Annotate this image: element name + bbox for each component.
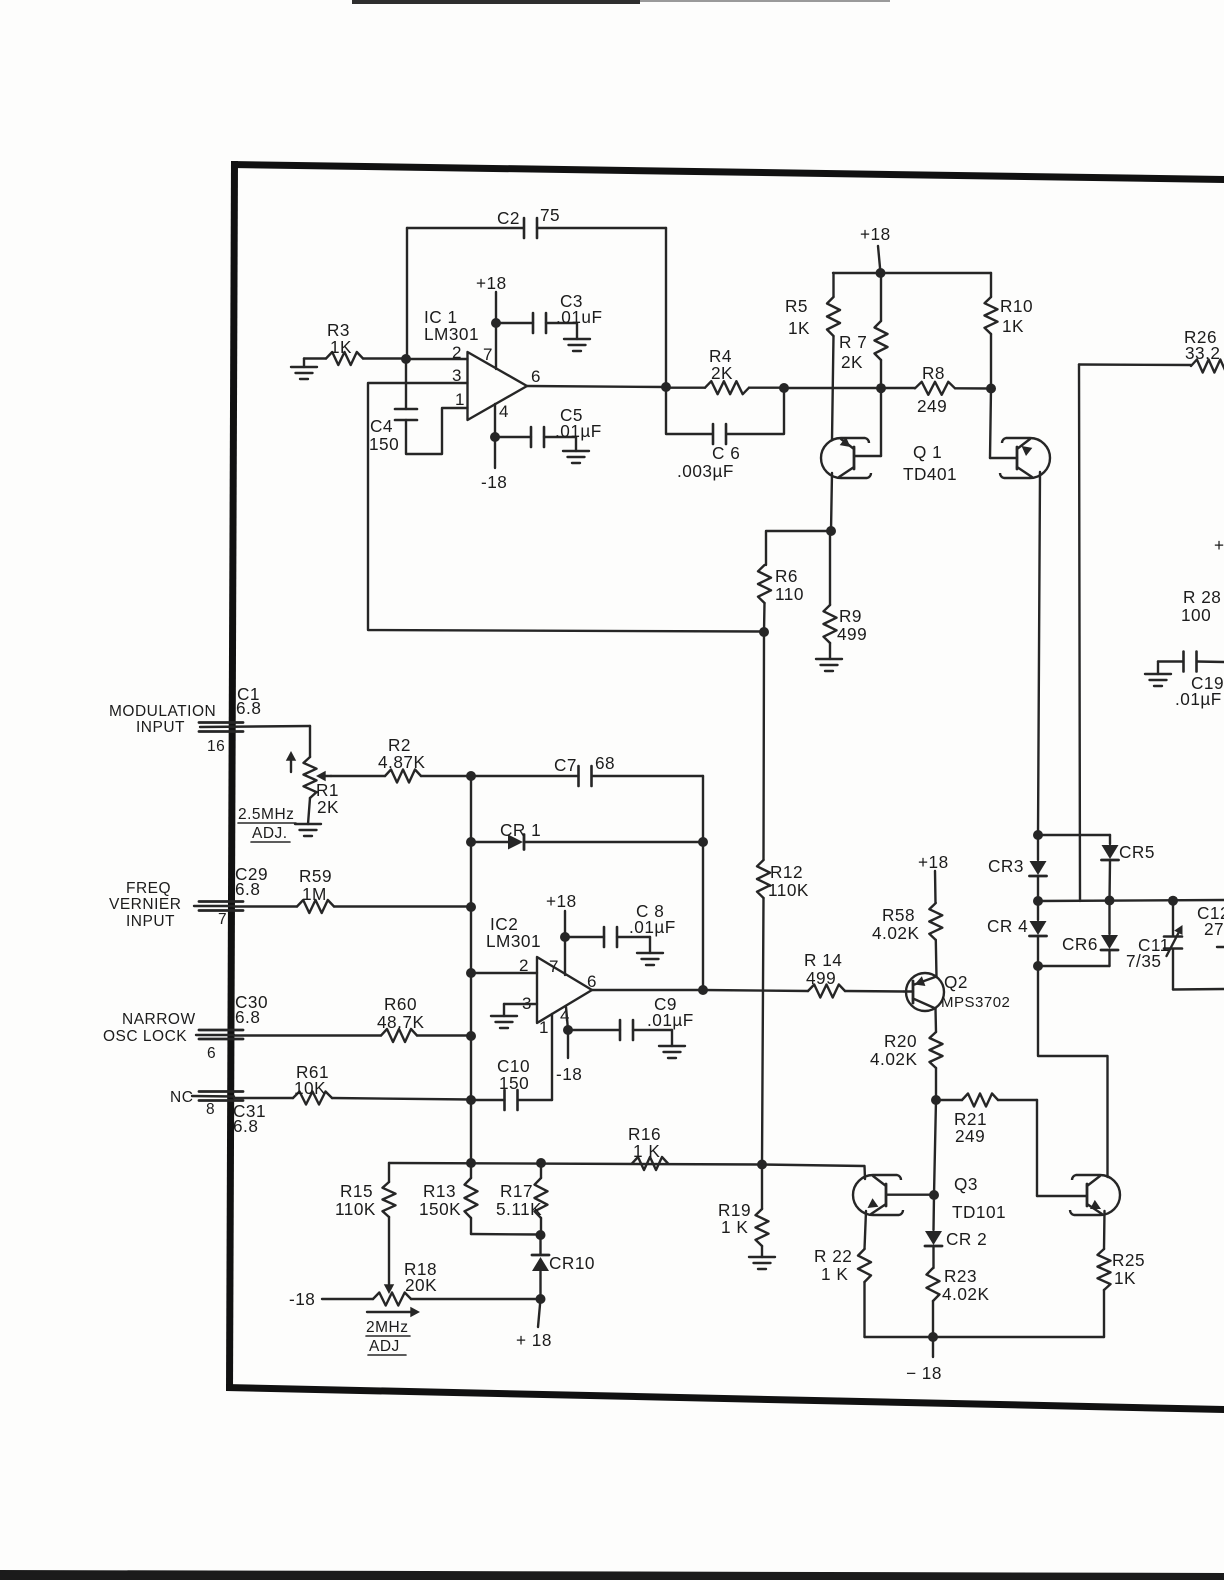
wire C7 right vertical [702,776,704,842]
wire R26 branch vertical [1079,365,1080,902]
wire -18 rail [865,1336,1105,1338]
svg-text:-18: -18 [481,472,507,492]
wire C2 feedback top [407,227,666,229]
wire C2 right vertical [665,228,667,387]
svg-text:R23: R23 [944,1266,977,1286]
label 2.5MHz ADJ [238,806,296,842]
capacitor C3 .01uF [496,291,602,339]
wire Q1 right base [990,389,1017,459]
svg-text:+18: +18 [918,852,949,872]
node CR5 bottom junction [1105,896,1115,906]
diode CR1 [471,820,703,850]
label MODULATION INPUT [109,703,216,736]
potentiometer R1 2K [304,726,340,824]
node R2 C7 junction [466,771,476,781]
wire CR network to Q3 right collector [1038,966,1108,1177]
node R8 left junction [876,383,886,393]
svg-text:1K: 1K [1002,316,1024,336]
capacitor C6 .003uF [666,387,784,481]
wire CR node rail right [1038,900,1224,901]
pin number IC1 2 [452,343,462,362]
diode CR2 [925,1195,987,1268]
svg-text:R 22: R 22 [814,1246,852,1266]
power +18 below CR10 [516,1299,552,1350]
svg-text:R9: R9 [839,606,862,626]
svg-text:NARROW: NARROW [122,1011,196,1028]
feedthrough capacitor C1 6.8 [199,684,261,732]
capacitor C12 27 (cut) [1197,903,1224,947]
ground at C3 [564,339,590,351]
ground at C19 [1145,674,1171,686]
feedthrough capacitor C30 6.8 [199,992,268,1039]
node R61 junction [466,1095,476,1105]
node C11 top junction [1168,896,1178,906]
transistor Q1 right half [1000,438,1050,478]
svg-text:1K: 1K [788,318,810,338]
arrow R18 adjust [367,1307,420,1317]
page edge mark top [352,0,890,4]
arrow C11 trimmer [1167,925,1183,956]
svg-text:Q 1: Q 1 [913,442,942,462]
node IC2 pin2 junction [466,968,476,978]
ground at IC2 pin3 [491,1016,517,1028]
pin 16 [207,738,225,755]
svg-text:CR6: CR6 [1062,934,1098,954]
pin number IC1 7 [483,345,493,364]
node -18 rail junction [928,1332,938,1342]
transistor Q3 right half [1070,1175,1120,1215]
node R12 R19 junction [757,1160,767,1170]
svg-text:Q3: Q3 [954,1174,978,1194]
arrow Q1 left emitter [840,437,851,447]
arrow Q2 emitter [915,976,926,986]
diode CR5 [1102,835,1155,901]
svg-text:1 K: 1 K [821,1264,848,1284]
svg-text:TD401: TD401 [903,464,957,484]
wire Q3 left emitter down [865,1211,867,1249]
resistor R9 499 [824,531,868,659]
feedthrough capacitor C29 6.8 [199,864,268,911]
wire IC1 pin4 [494,404,496,468]
node CR3 CR4 junction [1033,896,1043,906]
label NC [170,1089,193,1106]
node IC2 output junction [698,985,708,995]
resistor R21 249 [936,1094,1037,1147]
arrow R1 wiper [316,771,331,781]
wire Q2 net to Q3 left base [934,1100,936,1195]
svg-text:+: + [1214,535,1224,555]
wire freq vernier input [194,905,234,907]
node R17 top junction [536,1158,546,1168]
svg-text:INPUT: INPUT [126,913,175,930]
node R60 junction [466,1031,476,1041]
resistor R26 33.2 [1184,327,1224,373]
resistor R2 4.87K [331,735,471,783]
svg-text:OSC LOCK: OSC LOCK [103,1028,187,1045]
svg-text:75: 75 [540,205,560,225]
wire IC2 pin6 output [592,989,703,991]
svg-text:3: 3 [452,366,462,385]
svg-text:R12: R12 [770,862,803,882]
arrow Q3 right emitter [1090,1200,1101,1209]
capacitor C19 .01uF [1158,652,1224,710]
svg-text:R25: R25 [1112,1250,1145,1270]
svg-text:C 6: C 6 [712,443,740,463]
power -18 IC1 [481,472,507,492]
svg-text:5.11K: 5.11K [496,1199,542,1219]
pin number IC2 7 [549,957,559,976]
wire IC1 pin2 [406,358,468,360]
svg-text:499: 499 [837,624,867,644]
svg-text:+18: +18 [546,891,577,911]
svg-text:R 7: R 7 [839,332,867,352]
capacitor C9 .01uF [568,994,694,1046]
svg-text:2K: 2K [841,352,863,372]
svg-text:ADJ.: ADJ. [252,825,288,842]
svg-text:110K: 110K [768,880,809,900]
label FREQ VERNIER INPUT [109,880,181,930]
wire NC input [192,1095,234,1098]
svg-text:.01µF: .01µF [555,421,602,441]
svg-text:1 K: 1 K [721,1217,748,1237]
node R8 right junction [986,384,996,394]
resistor R59 1M [234,866,471,913]
svg-text:CR10: CR10 [549,1253,595,1273]
wire R9 node to R6 [766,531,831,565]
power -18 bottom [906,1337,942,1383]
svg-text:2K: 2K [317,797,339,817]
page edge strip bottom [0,1570,1224,1580]
resistor R12 110K [757,632,809,1165]
resistor R61 10K [234,1062,471,1105]
diode CR6 [1062,901,1118,967]
svg-text:LM301: LM301 [486,931,541,951]
resistor R7 2K [839,273,888,456]
svg-text:4.02K: 4.02K [870,1049,917,1069]
wire CR1 to IC2 output [702,842,704,990]
svg-text:249: 249 [917,396,947,416]
power +18 IC1 [476,273,507,369]
svg-text:33.2: 33.2 [1185,343,1220,363]
wire rail to Q3 left collector [762,1165,865,1180]
ground at R19 [749,1257,775,1269]
resistor R3 1K [304,320,406,365]
pin number IC2 4 [560,1006,570,1025]
svg-text:LM301: LM301 [424,324,479,344]
svg-text:48.7K: 48.7K [377,1012,424,1032]
resistor R13 150K [419,1178,478,1234]
node IC1 pin7 bypass junction [491,318,501,328]
power -18 IC2 [556,1064,582,1084]
capacitor C2 [497,205,560,238]
wire Q1 left base [855,455,881,457]
resistor R23 4.02K [927,1266,990,1337]
svg-text:R58: R58 [882,905,915,925]
svg-text:-18: -18 [556,1064,582,1084]
svg-text:R10: R10 [1000,296,1033,316]
wire Q3 left base [887,1193,934,1195]
wire R26 horizontal [1079,363,1191,366]
pin 7 [218,911,227,928]
node bus R13 junction [466,1158,476,1168]
svg-text:27: 27 [1204,919,1224,939]
svg-text:1: 1 [455,390,465,409]
resistor R28 100 (cut) [1181,587,1221,625]
svg-text:FREQ: FREQ [126,880,171,897]
svg-text:C7: C7 [554,755,577,775]
transistor Q1 left half [821,438,871,478]
resistor R60 48.7K [234,994,471,1042]
svg-text:16: 16 [207,738,225,755]
svg-text:1M: 1M [302,884,327,904]
svg-text:.01µF: .01µF [647,1010,694,1030]
svg-text:R5: R5 [785,296,808,316]
resistor R10 1K [985,273,1034,389]
power +18 R58 [918,852,949,903]
wire modulation input [200,726,310,727]
wire IC2 pin1 [551,1014,553,1100]
svg-text:.01uF: .01uF [556,307,602,327]
svg-text:6.8: 6.8 [233,1116,258,1136]
ground at R9 [816,659,842,671]
svg-text:6: 6 [587,972,597,991]
node +18 rail junction [876,268,886,278]
ground at C9 [659,1046,685,1058]
svg-text:+ 18: + 18 [516,1330,552,1350]
svg-text:6.8: 6.8 [235,879,260,899]
svg-text:.003µF: .003µF [677,461,734,481]
svg-text:4: 4 [499,402,509,421]
diode CR3 [988,835,1047,901]
svg-text:100: 100 [1181,605,1211,625]
diode CR4 [987,901,1047,966]
feedthrough capacitor C31 6.8 [199,1092,266,1137]
svg-text:2K: 2K [711,363,733,383]
svg-text:1K: 1K [1114,1268,1136,1288]
pin number IC1 1 [455,390,465,409]
resistor R25 1K [1098,1249,1146,1337]
transistor Q3 left half [853,1175,903,1215]
svg-text:8: 8 [206,1101,215,1118]
svg-text:NC: NC [170,1089,193,1106]
svg-text:7: 7 [549,957,559,976]
svg-text:1: 1 [539,1018,549,1037]
svg-text:68: 68 [595,753,615,773]
resistor R6 110 [758,565,804,632]
svg-text:-18: -18 [289,1289,315,1309]
power +18 IC2 [546,891,577,975]
svg-text:CR 1: CR 1 [500,820,541,840]
node IC2 pin4 bypass junction [563,1025,573,1035]
svg-text:150: 150 [369,434,399,454]
svg-text:7: 7 [218,911,227,928]
svg-text:CR3: CR3 [988,856,1024,876]
resistor R15 110K [335,1163,396,1284]
svg-text:1K: 1K [330,337,352,357]
node R17 CR10 junction [536,1230,546,1240]
pin number IC2 6 [587,972,597,991]
capacitor C11 7/35 [1126,901,1182,990]
resistor R14 499 [703,950,904,998]
pin number IC2 3 [522,994,532,1013]
svg-text:Q2: Q2 [944,972,968,992]
ground at R1 [295,824,321,836]
wire IC2 pin4 [566,1007,568,1058]
resistor R17 5.11K [496,1163,548,1235]
svg-text:MPS3702: MPS3702 [941,994,1010,1011]
wire IC1 pin3 to R6 node [368,383,762,632]
svg-text:R13: R13 [423,1181,456,1201]
svg-text:R60: R60 [384,994,417,1014]
svg-text:499: 499 [806,968,836,988]
svg-text:20K: 20K [405,1275,437,1295]
svg-text:R 28: R 28 [1183,587,1221,607]
power -18 R18 [289,1289,373,1309]
power +18 right (cut) [1214,535,1224,555]
node IC1 pin4 bypass junction [490,432,500,442]
wire Q1 left emitter to R9 node [831,473,832,531]
svg-text:R15: R15 [340,1181,373,1201]
transistor Q2 MPS3702 [904,973,944,1011]
svg-text:249: 249 [955,1126,985,1146]
svg-text:.01µF: .01µF [1175,689,1222,709]
svg-text:CR5: CR5 [1119,842,1155,862]
node CR1 right junction [698,837,708,847]
svg-text:110: 110 [775,584,804,604]
svg-text:R8: R8 [922,363,945,383]
power +18 Q1 [860,224,891,273]
node R6 bottom junction [759,627,769,637]
border frame left [226,161,238,1391]
capacitor C5 .01uF [495,405,602,451]
ground at C8 [637,953,663,965]
op-amp IC2 LM301 [486,914,592,1023]
svg-text:MODULATION: MODULATION [109,703,216,720]
svg-text:+18: +18 [860,224,891,244]
svg-text:110K: 110K [335,1199,376,1219]
diode CR10 [532,1235,595,1299]
svg-text:150K: 150K [419,1199,461,1219]
node R20 R21 junction [931,1095,941,1105]
svg-text:4.87K: 4.87K [378,752,425,772]
resistor R5 1K [785,273,840,440]
border frame bottom [226,1384,1224,1413]
capacitor C7 68 [471,753,703,786]
svg-text:150: 150 [499,1073,529,1093]
pin number IC2 2 [519,956,529,975]
wire Q1 right collector down [1038,472,1040,835]
wire +18 rail [833,272,991,274]
capacitor C8 .01uF [565,901,676,953]
node IC1 output junction [661,382,671,392]
svg-text:7: 7 [483,345,493,364]
svg-text:CR 4: CR 4 [987,916,1028,936]
svg-text:10K: 10K [294,1078,326,1098]
wire R4 to R8 [784,387,915,389]
svg-text:R59: R59 [299,866,332,886]
label Q3 [952,1174,1006,1222]
pin number IC2 1 [539,1018,549,1037]
resistor R19 1K [718,1165,769,1258]
svg-text:1 K: 1 K [633,1141,660,1161]
svg-text:R17: R17 [500,1181,533,1201]
ground at R3 [291,359,317,380]
resistor R16 1K [628,1124,668,1170]
svg-text:6: 6 [531,367,541,386]
svg-text:6.8: 6.8 [236,698,261,718]
svg-text:6.8: 6.8 [235,1007,260,1027]
node IC1 pin2 junction [401,354,411,364]
svg-text:2MHz: 2MHz [366,1319,408,1336]
pin 6 [207,1045,216,1062]
svg-text:6: 6 [207,1045,216,1062]
pin 8 [206,1101,215,1118]
op-amp IC1 LM301 [424,307,527,420]
svg-text:2: 2 [452,343,462,362]
wire R16 rail [389,1163,762,1165]
wire C2 left vertical [406,228,408,359]
border frame top [231,161,1224,183]
wire CR3 top to CR5 [1038,834,1110,836]
resistor R58 4.02K [872,903,942,977]
svg-text:7/35: 7/35 [1126,951,1161,971]
resistor R4 2K [666,346,784,394]
capacitor C10 150 [471,1056,552,1110]
svg-text:R20: R20 [884,1031,917,1051]
node R59 junction [466,902,476,912]
wire Q3 right emitter down [1103,1211,1106,1249]
pin number IC1 3 [452,366,462,385]
node IC2 pin7 bypass junction [560,932,570,942]
resistor R8 249 [915,363,991,416]
arrow 2.5MHz adjust [286,751,296,772]
arrow Q3 left emitter [868,1198,879,1208]
svg-text:.01µF: .01µF [629,917,676,937]
svg-text:− 18: − 18 [906,1363,942,1383]
arrow R15 wiper onto R18 [384,1284,394,1294]
label Q1 [903,442,957,484]
svg-text:VERNIER: VERNIER [109,896,181,913]
svg-text:ADJ: ADJ [369,1338,400,1355]
main vertical bus [470,776,472,1178]
svg-text:4.02K: 4.02K [872,923,919,943]
resistor R22 1K [814,1246,871,1337]
wire IC2 pin3 ground [504,1004,537,1016]
node R9 top junction [826,526,836,536]
svg-text:2.5MHz: 2.5MHz [238,806,294,823]
svg-text:+18: +18 [476,273,507,293]
capacitor C4 150 [369,359,468,454]
node R18 CR10 junction [536,1294,546,1304]
pin number IC1 6 [531,367,541,386]
arrow Q1 right emitter [1022,446,1033,456]
label NARROW OSC LOCK [103,1011,196,1045]
node CR3 top junction [1033,830,1043,840]
node CR1 left junction [466,837,476,847]
pin number IC1 4 [499,402,509,421]
svg-text:INPUT: INPUT [136,719,185,736]
svg-text:CR 2: CR 2 [946,1229,987,1249]
svg-text:TD101: TD101 [952,1202,1006,1222]
wire R21 to Q3 base [1037,1100,1086,1196]
node Q3 left base junction [929,1190,939,1200]
potentiometer R18 20K [373,1259,540,1306]
node R4 right junction [779,383,789,393]
label 2MHz ADJ [366,1319,410,1355]
wire IC2 pin2 [471,972,537,974]
wire R13 bottom [471,1233,540,1236]
node CR4 bottom junction [1033,961,1043,971]
